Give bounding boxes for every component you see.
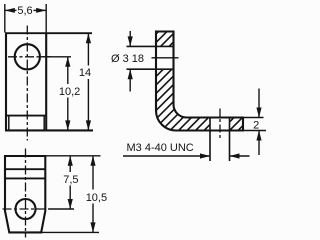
hole edge lines vertical leg — [127, 46, 174, 69]
svg-text:Ø 3 18: Ø 3 18 — [111, 53, 144, 65]
dimension 7,5 — [45, 156, 100, 209]
arrowhead up 10,5 — [90, 156, 95, 166]
svg-text:10,2: 10,2 — [59, 86, 80, 98]
arrowhead down Ø — [128, 36, 133, 46]
vertical centerline top view — [25, 149, 27, 238]
arrowhead up 10,2 — [65, 57, 70, 67]
front view bend band right tangent line — [43, 116, 45, 131]
front view bend band inner line — [6, 115, 46, 117]
section hatching — [50, 12, 320, 140]
extension line right — [45, 4, 47, 33]
hole gap in horizontal leg (white) — [210, 117, 230, 132]
hole edge lines horizontal leg — [210, 118, 230, 162]
front view bend band left tangent line — [8, 116, 10, 131]
arrowhead down 14 — [86, 120, 91, 130]
hole centerline tick vertical leg — [152, 57, 179, 59]
extension line at hole center — [49, 208, 75, 210]
arrowhead up 7,5 — [68, 156, 73, 166]
extension line bottom — [41, 231, 99, 233]
dimension line 7,5 — [69, 156, 71, 172]
dimension 14 — [87, 33, 89, 130]
leader line M3 right — [230, 155, 250, 157]
upper arrow line — [129, 31, 131, 46]
svg-text:10,5: 10,5 — [86, 192, 107, 204]
hole circle front view — [15, 44, 40, 69]
hole gap in vertical leg (white) — [155, 46, 175, 69]
extension line left — [4, 4, 6, 33]
dimension line 14 — [87, 33, 89, 65]
leader line M3 left — [123, 155, 210, 157]
extension line at circle center — [40, 56, 71, 58]
lower arrow line — [129, 69, 131, 91]
arrowhead down 7,5 — [68, 199, 73, 209]
arrowhead down 10,5 — [90, 222, 95, 232]
arrowhead down 2 — [256, 108, 261, 118]
svg-text:M3 4-40 UNC: M3 4-40 UNC — [127, 142, 194, 154]
arrow line below — [258, 131, 260, 156]
section outline — [156, 32, 243, 131]
dimension 5,6 — [5, 4, 46, 33]
svg-text:5,6: 5,6 — [17, 5, 32, 17]
dimension line 5,6 — [5, 9, 17, 11]
dimension line 10,5 — [92, 156, 94, 190]
arrow line above — [258, 89, 260, 118]
front view top edge + extension line for dim 14 — [5, 32, 92, 34]
arrowhead left M3 — [230, 153, 240, 158]
extension line top — [243, 117, 264, 119]
arrowhead right 5,6 — [36, 8, 46, 13]
dimension Ø 3 18 — [129, 31, 131, 92]
arrowhead up 14 — [86, 33, 91, 43]
dimension 10,5 — [41, 156, 99, 233]
horizontal centerline top view — [3, 208, 49, 210]
svg-text:7,5: 7,5 — [63, 174, 78, 186]
hole circle top view — [16, 199, 36, 219]
dimension 10,2 — [40, 57, 71, 131]
svg-text:14: 14 — [79, 67, 91, 79]
extension line top edge — [45, 155, 100, 157]
arrowhead up Ø — [128, 69, 133, 79]
top view bend line 2 — [5, 177, 45, 179]
arrowhead left 5,6 — [5, 8, 15, 13]
hole centerline horizontal leg — [219, 109, 221, 139]
extension line bottom — [243, 130, 266, 132]
arrowhead down 10,2 — [65, 120, 70, 130]
front view body outline — [6, 33, 46, 130]
top view outline — [5, 156, 45, 232]
front view bottom edge + extension line — [5, 129, 93, 131]
dimension 2 — [243, 89, 266, 156]
svg-text:2: 2 — [253, 120, 259, 132]
arrowhead up 2 — [256, 131, 261, 141]
vertical centerline front view — [26, 26, 28, 141]
horizontal centerline front view — [8, 56, 53, 58]
top view bend line 1 — [5, 168, 45, 170]
arrowhead right M3 — [200, 153, 210, 158]
dimension line 10,2 — [67, 57, 69, 84]
